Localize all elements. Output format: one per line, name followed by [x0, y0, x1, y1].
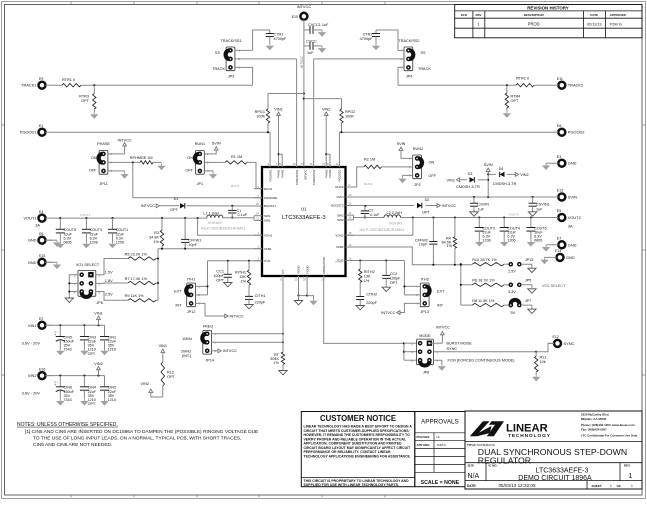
- svg-text:CC1: CC1: [216, 270, 224, 274]
- svg-text:1: 1: [631, 484, 633, 488]
- svg-text:R3: R3: [154, 231, 159, 235]
- svg-text:INTVCC: INTVCC: [141, 204, 155, 208]
- svg-text:VON1: VON1: [264, 233, 273, 237]
- svg-text:RUN2: RUN2: [364, 182, 373, 186]
- svg-text:FCM (FORCED CONTINUOUS MODE): FCM (FORCED CONTINUOUS MODE): [448, 359, 516, 363]
- svg-text:5V: 5V: [511, 311, 516, 315]
- svg-text:HI: HI: [437, 435, 440, 439]
- svg-text:E16: E16: [39, 367, 45, 371]
- svg-text:220pF: 220pF: [255, 300, 266, 304]
- svg-text:3A: 3A: [35, 223, 40, 228]
- svg-text:PGOOD2: PGOOD2: [568, 130, 585, 135]
- svg-text:MODE/SYNC: MODE/SYNC: [322, 257, 326, 274]
- svg-text:TOM G.: TOM G.: [437, 443, 447, 447]
- svg-text:SCHEMATIC: SCHEMATIC: [477, 443, 496, 447]
- svg-text:REV.: REV.: [624, 464, 631, 468]
- svg-text:RUN2: RUN2: [413, 147, 423, 151]
- svg-text:EXT: EXT: [174, 289, 182, 293]
- svg-text:TECHNOLOGY: TECHNOLOGY: [508, 433, 551, 439]
- svg-text:R9 11K 1%: R9 11K 1%: [125, 294, 145, 298]
- svg-text:VISHAY: VISHAY: [388, 221, 403, 226]
- svg-text:BOOST2: BOOST2: [331, 204, 344, 208]
- svg-text:(INT.): (INT.): [182, 354, 192, 358]
- svg-text:VIN2: VIN2: [322, 108, 330, 112]
- svg-text:VOUT2: VOUT2: [509, 213, 520, 217]
- svg-text:VON2: VON2: [335, 233, 344, 237]
- svg-text:Milpitas, CA 95035: Milpitas, CA 95035: [581, 417, 607, 421]
- svg-text:1: 1: [477, 21, 479, 26]
- svg-text:[1]: [1]: [54, 380, 58, 384]
- svg-text:VOUT1: VOUT1: [80, 213, 91, 217]
- svg-text:OF: OF: [617, 484, 621, 488]
- svg-text:GND: GND: [568, 242, 577, 247]
- svg-text:SUPPLIED FOR USE WITH LINEAR T: SUPPLIED FOR USE WITH LINEAR TECHNOLOGY …: [304, 483, 399, 487]
- svg-text:SCALE = NONE: SCALE = NONE: [421, 480, 460, 486]
- svg-text:R2 1M: R2 1M: [364, 157, 375, 161]
- svg-text:10k: 10k: [540, 360, 546, 364]
- svg-text:OPT: OPT: [81, 99, 89, 103]
- svg-text:APPROVED: APPROVED: [610, 13, 626, 17]
- svg-text:SVIN: SVIN: [212, 142, 221, 146]
- svg-text:CC2: CC2: [390, 272, 398, 276]
- svg-text:3.3V: 3.3V: [508, 290, 516, 294]
- svg-text:L1 1.0uH: L1 1.0uH: [203, 211, 219, 215]
- svg-text:SW2: SW2: [337, 218, 344, 222]
- svg-text:1210: 1210: [108, 348, 116, 352]
- svg-text:TITLE:: TITLE:: [467, 443, 477, 447]
- svg-text:CMDSH-3-TR: CMDSH-3-TR: [456, 185, 480, 189]
- svg-text:RITH2: RITH2: [364, 270, 375, 274]
- svg-text:E14: E14: [555, 249, 561, 253]
- svg-text:LINEAR: LINEAR: [506, 423, 548, 435]
- svg-text:0805: 0805: [64, 241, 72, 245]
- svg-text:JP2: JP2: [414, 183, 421, 187]
- svg-text:1MHz: 1MHz: [182, 337, 192, 341]
- svg-text:RTR3: RTR3: [79, 95, 89, 99]
- svg-text:INTVCC: INTVCC: [118, 139, 132, 143]
- svg-text:1%: 1%: [364, 279, 370, 283]
- svg-text:INTVCC: INTVCC: [230, 314, 244, 318]
- svg-text:CFFW1: CFFW1: [188, 238, 201, 242]
- svg-text:VIN2: VIN2: [28, 373, 37, 378]
- svg-text:1%: 1%: [154, 240, 160, 244]
- svg-text:RUN1: RUN1: [264, 187, 272, 191]
- svg-text:FREQ: FREQ: [203, 325, 214, 329]
- svg-text:CTR2: CTR2: [363, 33, 373, 37]
- svg-text:E15: E15: [39, 254, 45, 258]
- svg-text:JP4: JP4: [406, 75, 413, 79]
- svg-text:U1: U1: [301, 207, 307, 212]
- svg-text:05/03/13 12:32:05: 05/03/13 12:32:05: [498, 483, 535, 488]
- svg-text:Phone: (408)432-1900: Phone: (408)432-1900: [581, 423, 611, 427]
- svg-text:D4: D4: [499, 167, 504, 171]
- svg-text:JP14: JP14: [205, 359, 214, 363]
- svg-text:TRACK/SS1: TRACK/SS1: [220, 39, 241, 43]
- svg-text:SGND: SGND: [297, 265, 301, 273]
- svg-text:SYNC: SYNC: [564, 341, 575, 346]
- svg-text:VIN1: VIN1: [94, 311, 102, 315]
- svg-text:BOOST1: BOOST1: [264, 204, 277, 208]
- svg-text:7343: 7343: [64, 348, 72, 352]
- svg-text:VFB2: VFB2: [336, 245, 344, 249]
- svg-text:1630 McCarthy Blvd.: 1630 McCarthy Blvd.: [581, 412, 609, 416]
- svg-text:L2 2.2uH: L2 2.2uH: [387, 211, 403, 215]
- svg-text:R8 11.5K 1%: R8 11.5K 1%: [472, 299, 495, 303]
- svg-text:R12: R12: [167, 371, 174, 375]
- svg-text:ITH2: ITH2: [335, 260, 342, 264]
- svg-text:SVIN: SVIN: [336, 195, 343, 199]
- svg-text:SVIN: SVIN: [568, 195, 577, 200]
- svg-text:RUN1: RUN1: [231, 184, 240, 188]
- svg-text:RPG2: RPG2: [345, 110, 355, 114]
- svg-text:R6 18.7K 1%: R6 18.7K 1%: [472, 279, 495, 283]
- svg-text:VIN1: VIN1: [28, 323, 37, 328]
- svg-text:JP3: JP3: [228, 75, 235, 79]
- svg-text:MODE: MODE: [419, 334, 431, 338]
- svg-text:RPG1: RPG1: [255, 110, 265, 114]
- svg-text:1210: 1210: [108, 398, 116, 402]
- svg-text:3.6V - 20V: 3.6V - 20V: [22, 391, 41, 396]
- svg-text:4700pF: 4700pF: [274, 37, 288, 41]
- svg-text:100pF: 100pF: [390, 276, 401, 280]
- svg-text:GND: GND: [566, 255, 575, 260]
- svg-text:SVIN: SVIN: [484, 163, 493, 167]
- svg-text:JP5: JP5: [525, 279, 532, 283]
- svg-text:SS: SS: [215, 51, 221, 55]
- svg-text:OPT: OPT: [216, 279, 224, 283]
- svg-text:1: 1: [629, 473, 633, 480]
- svg-text:TRACK/SS1: TRACK/SS1: [295, 169, 299, 185]
- svg-text:1%: 1%: [241, 280, 247, 284]
- svg-text:1uF: 1uF: [477, 208, 484, 212]
- svg-text:E5: E5: [557, 209, 561, 213]
- svg-text:1206: 1206: [116, 241, 124, 245]
- svg-text:VO2 SELECT: VO2 SELECT: [542, 284, 566, 288]
- svg-text:PGOOD1: PGOOD1: [20, 130, 37, 135]
- svg-text:E9: E9: [39, 77, 43, 81]
- svg-text:TECHNOLOGY APPLICATIONS ENGINE: TECHNOLOGY APPLICATIONS ENGINEERING FOR …: [304, 454, 411, 458]
- svg-text:REV: REV: [476, 13, 482, 17]
- svg-text:VIN2: VIN2: [520, 173, 528, 177]
- svg-text:INTVCC: INTVCC: [303, 170, 307, 180]
- svg-text:OFF: OFF: [428, 174, 436, 178]
- svg-text:OPT: OPT: [170, 208, 178, 212]
- svg-text:R10 26.7K 1%: R10 26.7K 1%: [472, 258, 497, 262]
- svg-text:E13: E13: [557, 189, 563, 193]
- svg-text:D2: D2: [425, 198, 430, 202]
- svg-text:VFB1: VFB1: [264, 247, 272, 251]
- svg-text:VOUT1: VOUT1: [24, 216, 37, 221]
- svg-text:E1: E1: [39, 124, 43, 128]
- svg-text:TRACK1: TRACK1: [21, 83, 36, 88]
- svg-text:CVCC1 1uF: CVCC1 1uF: [308, 23, 329, 27]
- svg-text:DATE:: DATE:: [467, 484, 477, 488]
- svg-text:JP8: JP8: [423, 371, 430, 375]
- svg-text:RUN1: RUN1: [195, 142, 205, 146]
- svg-text:R11: R11: [540, 356, 547, 360]
- svg-text:JP13: JP13: [420, 310, 429, 314]
- svg-text:INT: INT: [175, 303, 182, 307]
- svg-text:2.5V: 2.5V: [508, 270, 516, 274]
- svg-text:ON: ON: [187, 156, 193, 160]
- svg-text:JP11: JP11: [99, 182, 107, 186]
- svg-text:CTR1: CTR1: [274, 33, 284, 37]
- svg-text:TRACK: TRACK: [212, 67, 225, 71]
- svg-text:CMDSH-3-TR: CMDSH-3-TR: [493, 182, 517, 186]
- svg-text:OFF: OFF: [185, 168, 193, 172]
- svg-text:VIN2: VIN2: [94, 362, 102, 366]
- svg-text:ON: ON: [429, 160, 435, 164]
- svg-text:ITH1: ITH1: [264, 259, 271, 263]
- svg-text:APP ENG.: APP ENG.: [417, 443, 431, 447]
- svg-text:SS: SS: [421, 51, 427, 55]
- svg-text:RT: RT: [281, 270, 285, 274]
- svg-text:13K: 13K: [364, 275, 371, 279]
- svg-text:7343: 7343: [64, 398, 72, 402]
- svg-text:ECO: ECO: [461, 13, 468, 17]
- svg-text:JP15: JP15: [525, 258, 534, 262]
- svg-text:DATE: DATE: [590, 13, 598, 17]
- svg-text:CSVIN1: CSVIN1: [536, 203, 550, 207]
- svg-text:JP6: JP6: [96, 301, 103, 305]
- svg-text:E7: E7: [557, 237, 561, 241]
- svg-text:SYNC: SYNC: [447, 347, 458, 351]
- svg-text:ITH1: ITH1: [187, 277, 195, 281]
- svg-text:TRACK: TRACK: [418, 67, 431, 71]
- svg-text:APPROVALS: APPROVALS: [421, 419, 459, 426]
- svg-text:0.1uF: 0.1uF: [238, 213, 248, 217]
- svg-text:1.5V: 1.5V: [105, 270, 113, 274]
- svg-text:PVIN1: PVIN1: [280, 169, 284, 178]
- svg-text:IC NO.: IC NO.: [489, 464, 498, 468]
- svg-text:VO1 SELECT: VO1 SELECT: [76, 263, 100, 267]
- svg-text:GND: GND: [28, 260, 37, 265]
- svg-text:CSVIN: CSVIN: [477, 203, 489, 207]
- svg-text:TRACK/SS2: TRACK/SS2: [312, 169, 316, 185]
- svg-text:OPT: OPT: [511, 99, 519, 103]
- svg-text:100pF: 100pF: [213, 274, 224, 278]
- svg-text:INTVCC: INTVCC: [300, 55, 304, 68]
- svg-text:PGOOD2: PGOOD2: [338, 169, 342, 181]
- svg-text:PHASE: PHASE: [97, 142, 110, 146]
- svg-text:INTVCC: INTVCC: [442, 204, 456, 208]
- svg-text:SW1: SW1: [264, 219, 271, 223]
- svg-text:34.8K: 34.8K: [149, 236, 159, 240]
- svg-text:R7 17.4K 1%: R7 17.4K 1%: [125, 277, 148, 281]
- svg-text:INTVCC: INTVCC: [436, 326, 450, 330]
- svg-text:INTVCC: INTVCC: [297, 4, 312, 9]
- svg-text:1.8V: 1.8V: [105, 279, 113, 283]
- svg-text:E6: E6: [39, 232, 43, 236]
- svg-text:VOUT2: VOUT2: [568, 215, 581, 220]
- svg-text:[1]: [1]: [54, 330, 58, 334]
- svg-text:[1] CIN5 AND CIN6 ARE INSERT: [1] CIN5 AND CIN6 ARE INSERTED ON DC1896…: [25, 429, 258, 435]
- svg-text:0.1uF: 0.1uF: [370, 213, 380, 217]
- svg-text:1206: 1206: [90, 241, 98, 245]
- svg-text:JP1: JP1: [197, 182, 204, 186]
- svg-text:OPT: OPT: [88, 352, 96, 356]
- svg-text:VIN1: VIN1: [447, 178, 455, 182]
- svg-text:PHMODE: PHMODE: [264, 196, 277, 200]
- svg-text:E8: E8: [557, 124, 561, 128]
- svg-text:VIN1: VIN1: [159, 344, 167, 348]
- svg-text:2MHz: 2MHz: [181, 349, 191, 353]
- svg-text:1206: 1206: [507, 239, 515, 243]
- svg-text:TRACK/SS2: TRACK/SS2: [398, 39, 419, 43]
- svg-text:PCB DES.: PCB DES.: [417, 435, 431, 439]
- svg-text:10pF: 10pF: [419, 243, 428, 247]
- svg-text:02/11/13: 02/11/13: [587, 22, 602, 26]
- svg-text:RTR2 0: RTR2 0: [516, 77, 529, 81]
- svg-text:E11: E11: [557, 77, 563, 81]
- svg-text:TRACK2: TRACK2: [568, 83, 583, 88]
- svg-text:3A: 3A: [568, 224, 573, 229]
- svg-text:RITH1: RITH1: [235, 271, 246, 275]
- svg-text:13K: 13K: [239, 275, 246, 279]
- svg-text:2.5V: 2.5V: [105, 293, 113, 297]
- svg-text:OPT: OPT: [390, 281, 398, 285]
- svg-text:LTC3633AEFE-3: LTC3633AEFE-3: [536, 467, 589, 474]
- svg-text:4700pF: 4700pF: [360, 37, 374, 41]
- svg-text:GND: GND: [568, 161, 577, 166]
- svg-text:N/A: N/A: [468, 473, 480, 480]
- svg-text:SW1: SW1: [264, 214, 271, 218]
- svg-text:PGOOD1: PGOOD1: [268, 169, 272, 181]
- svg-text:GND: GND: [28, 238, 37, 243]
- svg-text:ITH2: ITH2: [421, 277, 429, 281]
- svg-text:VIN2: VIN2: [141, 382, 149, 386]
- svg-text:E2: E2: [39, 317, 43, 321]
- svg-text:DEMO CIRCUIT 1896A: DEMO CIRCUIT 1896A: [518, 475, 592, 482]
- svg-text:RTR1 0: RTR1 0: [62, 78, 75, 82]
- svg-text:E12: E12: [553, 335, 559, 339]
- svg-text:SHEET: SHEET: [592, 484, 602, 488]
- svg-text:CITH1: CITH1: [255, 294, 266, 298]
- svg-text:PROD: PROD: [528, 21, 540, 26]
- svg-text:IHLP-2020BZDR2R2M01: IHLP-2020BZDR2R2M01: [360, 227, 406, 232]
- svg-text:1%: 1%: [274, 361, 280, 365]
- svg-text:TOM G.: TOM G.: [609, 22, 622, 26]
- svg-text:1%: 1%: [447, 244, 453, 248]
- svg-text:E3: E3: [557, 155, 561, 159]
- svg-text:R5 23.2K 1%: R5 23.2K 1%: [125, 252, 148, 256]
- svg-text:DESCRIPTION: DESCRIPTION: [524, 13, 544, 17]
- svg-text:1uF: 1uF: [536, 208, 543, 212]
- svg-text:3.6V - 20V: 3.6V - 20V: [22, 340, 41, 345]
- svg-text:INTVCC: INTVCC: [223, 349, 237, 353]
- svg-text:1206: 1206: [483, 239, 491, 243]
- svg-text:VIN1: VIN1: [274, 108, 282, 112]
- svg-text:CIN5 AND CIN6 ARE NOT NEEDED.: CIN5 AND CIN6 ARE NOT NEEDED.: [33, 442, 112, 448]
- svg-text:RUN2: RUN2: [335, 185, 343, 189]
- svg-text:EXT: EXT: [437, 289, 445, 293]
- svg-text:C2: C2: [369, 209, 374, 213]
- svg-text:www.linear.com: www.linear.com: [611, 423, 635, 427]
- svg-text:PVIN2: PVIN2: [328, 169, 332, 178]
- svg-text:IHLP-2020BZER1R0M01: IHLP-2020BZER1R0M01: [201, 226, 247, 231]
- svg-text:BURST MODE: BURST MODE: [447, 342, 473, 346]
- svg-text:Fax: (408)434-0507: Fax: (408)434-0507: [581, 428, 607, 432]
- svg-text:CUSTOMER NOTICE: CUSTOMER NOTICE: [320, 414, 396, 423]
- svg-text:LTC Confidential-For Customer: LTC Confidential-For Customer Use Only: [581, 433, 638, 437]
- svg-text:100K: 100K: [345, 115, 354, 119]
- svg-text:REVISION HISTORY: REVISION HISTORY: [527, 6, 569, 11]
- svg-text:1: 1: [610, 484, 612, 488]
- svg-text:SW2: SW2: [337, 213, 344, 217]
- svg-text:OPT: OPT: [422, 210, 430, 214]
- svg-text:NOTES: UNLESS OTHERWISE SPECIF: NOTES: UNLESS OTHERWISE SPECIFIED,: [17, 422, 118, 428]
- svg-text:TO THE USE OF LONG INPUT LEADS: TO THE USE OF LONG INPUT LEADS. ON A NOR…: [33, 436, 241, 442]
- svg-text:220pF: 220pF: [366, 301, 377, 305]
- svg-text:10pF: 10pF: [188, 243, 197, 247]
- svg-text:CITH2: CITH2: [366, 292, 377, 296]
- svg-text:INTVCC: INTVCC: [381, 311, 395, 315]
- svg-text:D3: D3: [468, 172, 473, 176]
- svg-text:100K: 100K: [256, 115, 265, 119]
- svg-text:INT: INT: [437, 303, 444, 307]
- svg-text:D1: D1: [174, 197, 179, 201]
- svg-text:SVIN: SVIN: [397, 142, 406, 146]
- svg-text:LTC3633AEFE-3: LTC3633AEFE-3: [282, 215, 326, 221]
- svg-text:OPT: OPT: [88, 402, 96, 406]
- svg-text:JP7: JP7: [525, 299, 532, 303]
- svg-text:E10: E10: [292, 15, 298, 19]
- svg-text:0805: 0805: [534, 239, 542, 243]
- svg-text:VISHAY: VISHAY: [208, 220, 223, 225]
- svg-text:PGND: PGND: [305, 265, 309, 273]
- svg-text:RTR4: RTR4: [511, 95, 521, 99]
- svg-text:R1 1M: R1 1M: [231, 155, 242, 159]
- svg-text:JP12: JP12: [187, 310, 196, 314]
- svg-text:ON: ON: [91, 156, 97, 160]
- svg-text:RPHMDE 1M: RPHMDE 1M: [130, 156, 153, 160]
- svg-text:SIZE: SIZE: [468, 464, 474, 468]
- svg-text:OPT: OPT: [167, 375, 175, 379]
- svg-text:E4: E4: [39, 210, 43, 214]
- svg-text:1uF: 1uF: [307, 51, 314, 55]
- svg-text:CVCC: CVCC: [306, 40, 317, 44]
- svg-text:OFF: OFF: [89, 168, 97, 172]
